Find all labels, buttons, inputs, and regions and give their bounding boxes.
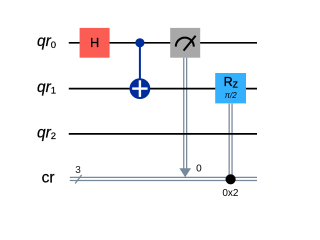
H gate on qr0 xyxy=(80,28,110,58)
classical wire cr (double line) xyxy=(70,176,257,178)
measure arrowhead xyxy=(179,168,191,177)
svg-text:H: H xyxy=(90,36,99,50)
CX target on qr1 xyxy=(130,78,151,99)
wire qr0 xyxy=(69,42,257,44)
wire qr1 xyxy=(69,88,257,90)
Rz gate on qr1 xyxy=(215,73,246,103)
measure gate on qr0 xyxy=(170,28,200,58)
creg size slash xyxy=(75,175,81,184)
CX vertical wire xyxy=(139,43,141,99)
measure double line down to cr xyxy=(183,58,185,170)
svg-text:0: 0 xyxy=(196,164,202,175)
condition dot on cr xyxy=(226,174,236,184)
svg-text:3: 3 xyxy=(75,165,81,176)
CX control dot on qr0 xyxy=(135,38,144,47)
svg-text:0x2: 0x2 xyxy=(222,188,239,199)
svg-text:π/2: π/2 xyxy=(225,91,238,100)
svg-text:cr: cr xyxy=(42,170,55,187)
condition double line from Rz to cr xyxy=(228,104,230,180)
wire qr2 xyxy=(69,133,257,135)
